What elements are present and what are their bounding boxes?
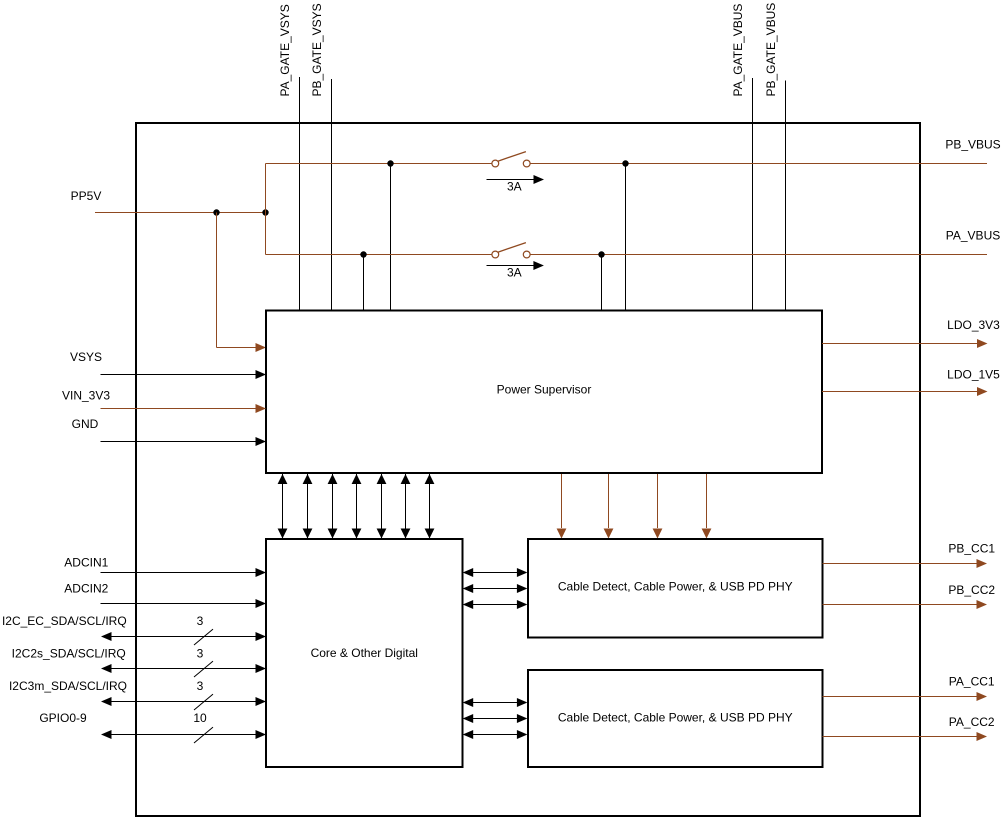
svg-text:PB_VBUS: PB_VBUS bbox=[945, 137, 1000, 151]
bus Power Supervisor to Core (bidirectional) bbox=[332, 474, 334, 539]
junction on PP5V wire (branch down) bbox=[213, 209, 219, 215]
block Power Supervisor bbox=[266, 311, 822, 474]
switch S1 blade bbox=[498, 152, 526, 162]
svg-text:GND: GND bbox=[72, 417, 99, 431]
bus Power Supervisor to Core (bidirectional) bbox=[282, 474, 284, 539]
switch S1 on PB_VBUS rail bbox=[492, 160, 499, 167]
outer chip boundary box bbox=[136, 123, 920, 816]
block Cable Detect, Cable Power, & USB PD PHY (port B) bbox=[528, 539, 823, 638]
wire sense tap to Power Supervisor bbox=[390, 164, 392, 311]
wire VIN_3V3 bbox=[100, 408, 256, 410]
bus width slash bbox=[194, 694, 213, 710]
junction sense tap right on PA_VBUS bbox=[598, 251, 604, 257]
junction sense tap right on PB_VBUS bbox=[622, 160, 628, 166]
wire PA_VBUS rail right segment bbox=[530, 254, 987, 256]
bus wire I2C_EC_SDA/SCL/IRQ (bidirectional) bbox=[111, 636, 256, 638]
wire PA_GATE_VBUS vertical into Power Supervisor bbox=[752, 78, 754, 311]
junction sense tap left on PB_VBUS bbox=[387, 160, 393, 166]
svg-text:I2C_EC_SDA/SCL/IRQ: I2C_EC_SDA/SCL/IRQ bbox=[2, 614, 127, 628]
svg-text:3: 3 bbox=[197, 679, 204, 693]
svg-text:Cable Detect, Cable Power, & U: Cable Detect, Cable Power, & USB PD PHY bbox=[558, 580, 793, 594]
wire PP5V horizontal bbox=[95, 212, 266, 214]
svg-text:PB_CC1: PB_CC1 bbox=[948, 542, 995, 556]
junction on PP5V wire (branch to VBUS rails) bbox=[262, 209, 268, 215]
bus Power Supervisor to Core (bidirectional) bbox=[381, 474, 383, 539]
wire PB_GATE_VSYS vertical into Power Supervisor bbox=[331, 79, 333, 311]
svg-text:LDO_1V5: LDO_1V5 bbox=[947, 368, 1000, 382]
current rating arrow 3A (bottom) bbox=[487, 265, 535, 267]
wire PB_CC2 bbox=[823, 604, 977, 606]
wire GND bbox=[100, 441, 256, 443]
svg-text:PB_CC2: PB_CC2 bbox=[948, 583, 995, 597]
svg-text:3A: 3A bbox=[507, 265, 522, 279]
wire PB_CC1 bbox=[823, 563, 977, 565]
wire sense tap to Power Supervisor bbox=[601, 255, 603, 311]
wire PA_VBUS rail left segment bbox=[266, 254, 492, 256]
svg-text:PA_CC2: PA_CC2 bbox=[949, 715, 995, 729]
wire PB_VBUS rail left segment bbox=[266, 163, 492, 165]
svg-text:I2C3m_SDA/SCL/IRQ: I2C3m_SDA/SCL/IRQ bbox=[9, 679, 127, 693]
wire sense tap to Power Supervisor bbox=[363, 255, 365, 311]
bus Power Supervisor to Core (bidirectional) bbox=[356, 474, 358, 539]
wire PB_GATE_VBUS vertical into Power Supervisor bbox=[785, 81, 787, 311]
wire Power Supervisor to Cable Detect (power) bbox=[561, 474, 563, 528]
junction sense tap left on PA_VBUS bbox=[360, 251, 366, 257]
wire PP5V riser to VBUS rails bbox=[265, 164, 267, 255]
bus Core to Cable Detect (bidirectional) bbox=[472, 588, 518, 590]
current rating arrow 3A (top) bbox=[486, 179, 534, 181]
svg-text:ADCIN1: ADCIN1 bbox=[64, 556, 108, 570]
svg-text:3A: 3A bbox=[507, 180, 522, 194]
bus wire I2C2s_SDA/SCL/IRQ (bidirectional) bbox=[111, 668, 256, 670]
block Cable Detect, Cable Power, & USB PD PHY (port A) bbox=[528, 670, 823, 767]
svg-text:PA_GATE_VBUS: PA_GATE_VBUS bbox=[731, 4, 745, 97]
svg-text:PA_GATE_VSYS: PA_GATE_VSYS bbox=[278, 4, 292, 96]
bus wire I2C3m_SDA/SCL/IRQ (bidirectional) bbox=[111, 701, 256, 703]
bus Core to Cable Detect (bidirectional) bbox=[472, 604, 518, 606]
wire PA_GATE_VSYS vertical into Power Supervisor bbox=[299, 77, 301, 311]
wire PA_CC1 bbox=[823, 696, 977, 698]
svg-text:VIN_3V3: VIN_3V3 bbox=[62, 389, 110, 403]
wire LDO_1V5 bbox=[822, 391, 977, 393]
switch S2 blade bbox=[498, 243, 526, 253]
bus Power Supervisor to Core (bidirectional) bbox=[405, 474, 407, 539]
bus width slash bbox=[194, 629, 213, 645]
bus wire GPIO0-9 (bidirectional) bbox=[111, 734, 256, 736]
bus width slash bbox=[194, 661, 213, 677]
svg-text:PB_GATE_VBUS: PB_GATE_VBUS bbox=[764, 3, 778, 97]
bus width slash bbox=[194, 727, 213, 743]
svg-text:3: 3 bbox=[197, 614, 204, 628]
svg-text:PB_GATE_VSYS: PB_GATE_VSYS bbox=[310, 3, 324, 96]
svg-text:PA_CC1: PA_CC1 bbox=[949, 674, 995, 688]
bus Power Supervisor to Core (bidirectional) bbox=[307, 474, 309, 539]
wire Power Supervisor to Cable Detect (power) bbox=[608, 474, 610, 528]
wire PA_CC2 bbox=[823, 736, 977, 738]
wire PP5V branch down to Power Supervisor bbox=[216, 213, 218, 348]
svg-text:LDO_3V3: LDO_3V3 bbox=[947, 318, 1000, 332]
wire Power Supervisor to Cable Detect (power) bbox=[706, 474, 708, 528]
wire PB_VBUS rail right segment bbox=[530, 163, 987, 165]
svg-text:GPIO0-9: GPIO0-9 bbox=[39, 711, 87, 725]
bus Power Supervisor to Core (bidirectional) bbox=[429, 474, 431, 539]
wire LDO_3V3 bbox=[822, 343, 977, 345]
bus Core to Cable Detect (bidirectional) bbox=[472, 572, 518, 574]
wire Power Supervisor to Cable Detect (power) bbox=[657, 474, 659, 528]
wire sense tap to Power Supervisor bbox=[625, 164, 627, 311]
svg-text:ADCIN2: ADCIN2 bbox=[64, 582, 108, 596]
svg-text:10: 10 bbox=[193, 711, 207, 725]
svg-text:VSYS: VSYS bbox=[70, 350, 102, 364]
svg-text:Core & Other Digital: Core & Other Digital bbox=[311, 646, 418, 660]
block Core & Other Digital bbox=[266, 539, 463, 767]
svg-text:Power Supervisor: Power Supervisor bbox=[497, 382, 592, 396]
bus Core to Cable Detect (bidirectional) bbox=[472, 702, 518, 704]
wire ADCIN1 bbox=[100, 572, 256, 574]
switch S2 on PA_VBUS rail bbox=[492, 251, 499, 258]
bus Core to Cable Detect (bidirectional) bbox=[472, 718, 518, 720]
wire ADCIN2 bbox=[100, 603, 256, 605]
svg-text:3: 3 bbox=[197, 647, 204, 661]
svg-text:PA_VBUS: PA_VBUS bbox=[946, 228, 1000, 242]
wire VSYS bbox=[100, 374, 256, 376]
bus Core to Cable Detect (bidirectional) bbox=[472, 734, 518, 736]
svg-text:I2C2s_SDA/SCL/IRQ: I2C2s_SDA/SCL/IRQ bbox=[12, 647, 126, 661]
svg-text:PP5V: PP5V bbox=[71, 189, 102, 203]
svg-text:Cable Detect, Cable Power, & U: Cable Detect, Cable Power, & USB PD PHY bbox=[558, 711, 793, 725]
